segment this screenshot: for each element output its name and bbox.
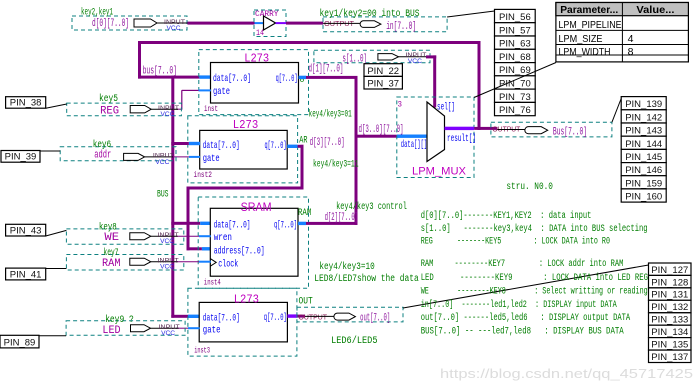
svg-text:Bus[7..0]: Bus[7..0]: [553, 126, 587, 138]
svg-text:stru. N0.0: stru. N0.0: [506, 182, 553, 193]
input pin symbol s[1..0]: [378, 54, 399, 60]
pin box PIN_133: [649, 313, 692, 326]
wire key7 RAM to clock: [176, 261, 199, 263]
svg-text:LED: LED: [102, 325, 121, 337]
svg-text:PIN_131: PIN_131: [651, 290, 688, 301]
svg-text:in[7..0]: in[7..0]: [386, 21, 416, 33]
svg-text:VCC: VCC: [160, 238, 174, 245]
svg-text:PIN_22: PIN_22: [367, 66, 399, 77]
pin box PIN_38: [6, 97, 46, 109]
pin box PIN_146: [621, 163, 666, 177]
wire bus branch to SRAM data: [171, 222, 200, 225]
pin box PIN_56: [495, 9, 536, 23]
input pin REG (key5) dashed box: [67, 103, 182, 116]
wire key5 REG to gate of inst: [176, 108, 182, 110]
annotation line in box to PIN_56: [447, 11, 494, 17]
pin box PIN_41: [6, 268, 46, 280]
svg-text:PIN_133: PIN_133: [651, 315, 688, 326]
pin box PIN_70: [495, 76, 536, 90]
svg-text:PIN_134: PIN_134: [651, 327, 688, 338]
svg-text:Parameter...: Parameter...: [560, 4, 618, 16]
svg-text:VCC: VCC: [155, 159, 169, 166]
svg-text:PIN_139: PIN_139: [625, 99, 662, 110]
svg-text:clock: clock: [218, 258, 238, 270]
wire d bus into LPM_MUX data: [356, 135, 397, 138]
pin box PIN_128: [649, 275, 692, 288]
output pin in[7..0] dashed box: [323, 17, 447, 32]
pin box PIN_22: [364, 64, 402, 77]
input pin d[0][7..0] dashed box: [72, 16, 187, 30]
wire d[3] horizontal to address column: [187, 187, 304, 190]
svg-text:key5: key5: [99, 93, 118, 105]
svg-text:PIN_57: PIN_57: [499, 25, 531, 36]
svg-text:3: 3: [398, 100, 403, 110]
pin box PIN_127: [649, 263, 692, 276]
wire d[0] to CARRY: [187, 22, 254, 25]
component box L273 inst: [211, 63, 299, 104]
svg-text:data[7..0]: data[7..0]: [214, 219, 251, 231]
pin stub s[1..0]: [399, 56, 429, 58]
top horizontal BUS wire: [138, 41, 481, 44]
annotation line PIN_38: [46, 104, 67, 108]
input pin LED (key9 ?) dashed box: [66, 321, 185, 336]
pin box PIN_63: [495, 36, 536, 50]
svg-text:REG: REG: [100, 105, 119, 117]
svg-text:BUS: BUS: [157, 189, 169, 200]
pin box PIN_57: [495, 23, 536, 37]
svg-text:key2,key1: key2,key1: [81, 6, 113, 18]
annotation line Bus box to PIN_139: [612, 99, 621, 123]
pin stub out[7..0]: [305, 315, 335, 317]
wire d bus vertical d[1]/d[2] collector: [355, 76, 358, 225]
wire BUS main vertical: [171, 76, 174, 318]
wire sel corner: [426, 55, 436, 58]
annotation line PIN_39: [40, 150, 60, 152]
pin stub LED: [151, 327, 179, 329]
svg-text:PIN_76: PIN_76: [499, 105, 531, 116]
wire bus left vertical to L273 inst data: [138, 41, 141, 79]
component box SRAM inst4: [210, 208, 298, 276]
pin box PIN_131: [649, 288, 692, 301]
svg-text:PIN_128: PIN_128: [651, 277, 688, 288]
pin stub WE: [151, 235, 178, 237]
svg-text:key1/key2=00 into BUS: key1/key2=00 into BUS: [320, 8, 420, 20]
svg-text:q[7..0]: q[7..0]: [276, 73, 298, 85]
wire key9 LED to gate of inst3: [176, 327, 188, 329]
svg-text:inst2: inst2: [194, 170, 213, 180]
wire key6 addr to gate of inst2: [172, 156, 189, 158]
pin stub addr: [145, 156, 173, 158]
svg-text:PIN_41: PIN_41: [10, 269, 42, 280]
svg-text:wren: wren: [214, 232, 232, 244]
svg-text:AR: AR: [299, 135, 307, 146]
input pin addr (key6) dashed box: [60, 147, 176, 161]
ram SRAM inst4 dashed box: [198, 197, 308, 288]
pin box PIN_132: [649, 300, 692, 313]
svg-text:PIN_132: PIN_132: [651, 302, 688, 313]
pin box PIN_89: [0, 335, 39, 348]
svg-text:LPM_WIDTH: LPM_WIDTH: [559, 46, 611, 58]
wire bus corner into L273 inst3 data: [171, 315, 188, 318]
svg-text:key4/key3=10: key4/key3=10: [319, 261, 374, 273]
svg-text:PIN_43: PIN_43: [10, 225, 42, 236]
wire bus right vertical down to result junction: [478, 41, 481, 130]
pin box PIN_43: [6, 224, 46, 236]
wire into SRAM address: [187, 247, 202, 250]
svg-text:PIN_127: PIN_127: [651, 265, 688, 276]
output pin symbol in[7..0]: [360, 21, 381, 28]
svg-text:PIN_63: PIN_63: [499, 39, 531, 50]
pin box PIN_143: [621, 123, 666, 137]
pin box PIN_142: [621, 110, 666, 124]
pin box PIN_137: [649, 350, 692, 363]
wire blue into CARRY: [255, 22, 264, 24]
svg-text:https://blog.csdn.net/qq_45717: https://blog.csdn.net/qq_45717425: [440, 366, 693, 381]
multiplexer LPM_MUX dashed box: [397, 97, 474, 178]
svg-text:VCC: VCC: [167, 25, 181, 32]
svg-text:PIN_143: PIN_143: [625, 126, 662, 137]
svg-text:s[1..0] -------key3,key4 :: s[1..0] -------key3,key4 : DATA into BUS…: [421, 223, 648, 235]
input pin symbol LED: [131, 325, 151, 332]
svg-text:s[1..0]: s[1..0]: [342, 54, 367, 66]
svg-text:address[7..0]: address[7..0]: [214, 245, 265, 257]
svg-text:key4/key3=11: key4/key3=11: [313, 159, 359, 171]
input pin RAM (key7) dashed box: [66, 255, 183, 271]
svg-text:VCC: VCC: [161, 111, 175, 118]
svg-text:VCC: VCC: [161, 330, 175, 337]
svg-text:REG -------KEY5 :: REG -------KEY5 : LOCK DATA into R0: [421, 236, 610, 248]
svg-text:Value...: Value...: [636, 4, 674, 16]
svg-text:LED6/LED5: LED6/LED5: [331, 335, 377, 347]
svg-text:gate: gate: [203, 153, 220, 165]
output pin Bus[7..0] dashed box: [491, 122, 612, 137]
svg-text:d[1][7..0]: d[1][7..0]: [309, 64, 344, 76]
svg-text:key4/key3 control: key4/key3 control: [336, 201, 407, 213]
wire sel vertical into LPM_MUX: [433, 55, 436, 107]
svg-text:LPM_SIZE: LPM_SIZE: [559, 33, 603, 45]
svg-text:PIN_159: PIN_159: [625, 178, 662, 189]
input pin symbol WE: [130, 233, 151, 240]
svg-text:PIN_56: PIN_56: [499, 12, 531, 23]
output pin out[7..0] dashed box: [297, 307, 403, 322]
svg-text:PIN_135: PIN_135: [651, 340, 688, 351]
svg-text:inst3: inst3: [194, 346, 210, 356]
svg-text:data[7..0]: data[7..0]: [203, 140, 240, 152]
pin box PIN_159: [621, 176, 666, 190]
pin stub d[0]: [157, 22, 187, 24]
svg-text:data[][]: data[][]: [401, 139, 427, 151]
svg-text:PIN_38: PIN_38: [10, 98, 42, 109]
svg-text:4: 4: [628, 33, 634, 45]
register L273 inst3 dashed box: [188, 288, 297, 356]
wire result to Bus output: [474, 127, 497, 130]
wire bus branch to inst2 data: [171, 142, 189, 145]
svg-text:OUT: OUT: [299, 297, 313, 308]
pin stub REG: [151, 108, 178, 110]
pin box PIN_160: [621, 189, 666, 203]
svg-text:q[7..0]: q[7..0]: [265, 140, 287, 152]
annotation line PIN_89: [39, 335, 66, 337]
svg-text:PIN_73: PIN_73: [499, 92, 531, 103]
input pin WE (key8) dashed box: [66, 229, 183, 244]
register L273 inst dashed box: [199, 50, 309, 115]
svg-text:LPM_MUX: LPM_MUX: [412, 166, 467, 178]
carry buffer 14 dashed box: [254, 10, 286, 37]
svg-text:RAM: RAM: [102, 258, 121, 270]
clock triangle marker: [210, 259, 216, 267]
svg-text:sel[]: sel[]: [437, 102, 455, 114]
annotation line out box to PIN_127: [403, 265, 649, 308]
pin box PIN_145: [621, 149, 666, 163]
svg-text:SRAM: SRAM: [241, 202, 272, 214]
svg-text:WE: WE: [104, 232, 119, 244]
pin box PIN_144: [621, 136, 666, 150]
svg-text:in[7..0] -------led1,led2 :: in[7..0] -------led1,led2 : DISPLAY inpu…: [421, 299, 617, 311]
pin stub RAM: [151, 261, 178, 263]
svg-text:d[0][7..0]: d[0][7..0]: [92, 18, 129, 30]
pin box PIN_68: [495, 49, 536, 63]
svg-text:inst: inst: [204, 104, 218, 114]
annotation line parameter table to LPM_MUX: [474, 63, 556, 98]
svg-text:WE --------KEY8 :: WE --------KEY8 : Select writting or rea…: [421, 285, 648, 297]
wire d[3] vertical down: [301, 145, 304, 190]
svg-text:14: 14: [256, 28, 264, 38]
svg-text:PIN_144: PIN_144: [625, 139, 662, 150]
pin stub in[7..0]: [323, 22, 361, 24]
pin box PIN_134: [649, 325, 692, 338]
pin box PIN_73: [495, 89, 536, 103]
svg-text:VCC: VCC: [160, 264, 174, 271]
svg-text:gate: gate: [213, 86, 230, 98]
svg-text:OUTPUT: OUTPUT: [299, 314, 328, 321]
svg-text:LED --------KEY9 :: LED --------KEY9 : LOCK DATA into LED RE…: [421, 272, 648, 284]
svg-text:OUTPUT: OUTPUT: [324, 21, 355, 28]
wire violet out of CARRY: [276, 22, 286, 24]
component box L273 inst2: [200, 130, 288, 169]
pin box PIN_37: [364, 76, 402, 89]
pin box PIN_39: [1, 151, 40, 163]
svg-text:d[3][7..0]: d[3][7..0]: [310, 137, 345, 149]
svg-text:PIN_137: PIN_137: [651, 352, 688, 363]
wire blue segment into SRAM data[7..0]: [200, 222, 211, 225]
svg-text:PIN_68: PIN_68: [499, 52, 531, 63]
pin stub Bus[7..0]: [498, 129, 526, 131]
annotation line PIN_43: [46, 230, 67, 236]
svg-text:LPM_PIPELINE: LPM_PIPELINE: [559, 19, 622, 31]
output pin symbol out[7..0]: [334, 313, 356, 320]
svg-text:d[2][7..0]: d[2][7..0]: [325, 212, 358, 224]
wire q of inst4 (d[2]): [298, 222, 306, 225]
svg-text:RAM: RAM: [298, 208, 311, 219]
svg-text:PIN_145: PIN_145: [625, 152, 662, 163]
wire q of inst3 violet out: [287, 314, 297, 317]
register L273 inst2 dashed box: [188, 116, 298, 183]
svg-text:d[0][7..0]-------KEY1,KEY2 :: d[0][7..0]-------KEY1,KEY2 : data input: [421, 210, 592, 222]
svg-text:PIN_142: PIN_142: [625, 112, 662, 123]
svg-text:inst4: inst4: [204, 278, 221, 288]
mux symbol LPM_MUX: [427, 102, 445, 162]
annotation line PIN_41: [46, 268, 67, 270]
svg-text:data[7..0]: data[7..0]: [203, 312, 240, 324]
pin box PIN_135: [649, 338, 692, 351]
svg-text:q[7..0]: q[7..0]: [274, 220, 297, 232]
svg-text:RAM --------KEY7 :: RAM --------KEY7 : LOCK addr into RAM: [421, 258, 624, 270]
input pin symbol addr: [124, 153, 145, 160]
svg-text:q[7..0]: q[7..0]: [264, 312, 287, 324]
input pin symbol RAM: [130, 258, 151, 265]
wire blue highlighted segment into data[7..0] of inst: [199, 75, 211, 78]
wire blue segment into inst3 data[7..0]: [188, 315, 200, 318]
svg-text:gate: gate: [203, 324, 221, 336]
wire q of inst2 (d[3]): [287, 145, 297, 148]
wire result violet: [445, 127, 475, 130]
component box L273 inst3: [199, 302, 287, 342]
svg-text:LED8/LED7show the data: LED8/LED7show the data: [314, 273, 419, 285]
input pin symbol REG: [130, 106, 151, 113]
input pin s[1..0] dashed box: [314, 50, 430, 62]
svg-text:addr: addr: [94, 149, 111, 161]
svg-text:data[7..0]: data[7..0]: [213, 73, 251, 85]
wire bus to L273 inst data input: [138, 76, 199, 79]
svg-text:PIN_39: PIN_39: [5, 152, 37, 163]
svg-text:8: 8: [628, 46, 634, 58]
pin box PIN_69: [495, 63, 536, 77]
output pin symbol Bus[7..0]: [525, 127, 548, 134]
wire CARRY to in[7..0] output: [286, 22, 323, 25]
svg-text:out[7..0]: out[7..0]: [360, 313, 390, 325]
wire q of inst to d bus vertical: [299, 76, 307, 79]
pin box PIN_139: [621, 97, 666, 111]
svg-text:key4/key3=01: key4/key3=01: [309, 109, 352, 121]
buffer CARRY triangle: [264, 16, 276, 30]
wire address vertical: [187, 187, 190, 251]
svg-text:PIN_160: PIN_160: [625, 192, 662, 203]
svg-text:PIN_89: PIN_89: [4, 337, 36, 348]
parameter table of LPM_MUX: [556, 3, 689, 62]
wire key8 WE to wren: [176, 235, 199, 237]
wire blue segment into LPM_MUX data[]: [397, 135, 428, 138]
svg-text:VCC: VCC: [408, 58, 422, 65]
svg-text:L273: L273: [234, 294, 259, 307]
svg-text:BUS[7..0] -- ---led7,led8 :: BUS[7..0] -- ---led7,led8 : DISPLAY BUS …: [421, 326, 624, 338]
svg-text:PIN_69: PIN_69: [499, 65, 531, 76]
svg-text:out[7..0] ------led5,led6 :: out[7..0] ------led5,led6 : DISPLAY outp…: [421, 312, 631, 324]
svg-text:PIN_37: PIN_37: [367, 78, 399, 89]
svg-text:PIN_146: PIN_146: [625, 165, 662, 176]
input pin symbol d[0]: [134, 19, 157, 27]
svg-text:result[]: result[]: [447, 133, 476, 145]
pin box PIN_76: [495, 102, 536, 116]
